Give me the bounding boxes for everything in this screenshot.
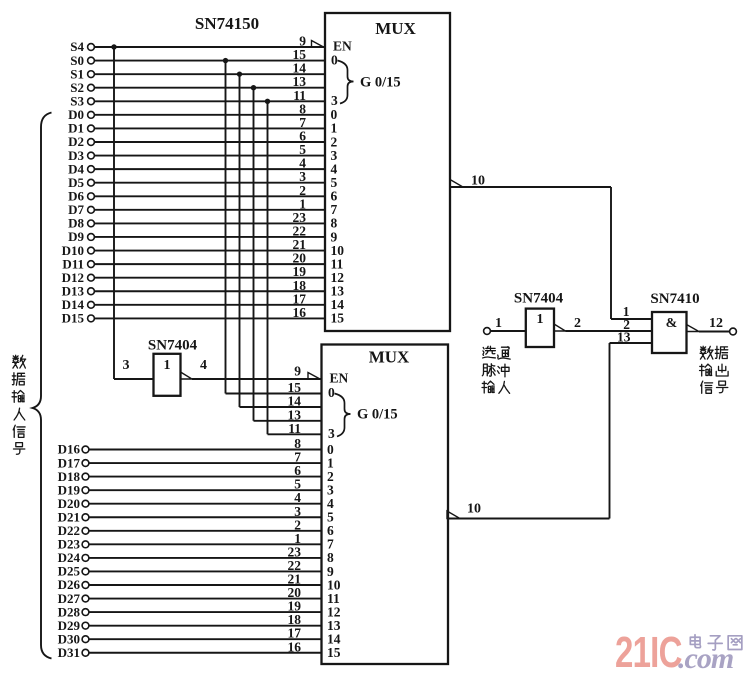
annotation text 选 (strobe pulse input) (483, 346, 496, 358)
svg-text:16: 16 (293, 305, 307, 320)
U2 select brace (335, 394, 351, 437)
svg-text:15: 15 (327, 645, 341, 660)
brace data inputs D0-D31 (33, 113, 52, 659)
annotation text 入 (data input signal) (14, 408, 25, 420)
annotation text 入 (strobe pulse input) (499, 381, 510, 393)
wire D16 to U2 pin 8 (89, 449, 322, 451)
inverter U3 SN7404 (154, 354, 181, 396)
wire D14 to U1 pin 17 (94, 304, 325, 306)
wire U4 output (699, 331, 730, 333)
multiplexer U1 SN74150 (top MUX) (325, 13, 450, 331)
wire to U4 pin 13 (610, 342, 653, 344)
wire strobe input to U5 (490, 330, 525, 332)
wire D20 to U2 pin 4 (89, 503, 322, 505)
U1 EN polarity wedge (312, 41, 324, 48)
wire S4 to U1 pin 9 (94, 46, 325, 48)
wire D17 to U2 pin 7 (89, 462, 322, 464)
wire D6 to U1 pin 2 (94, 195, 325, 197)
wire D31 to U2 pin 16 (89, 652, 322, 654)
wire S3 to U1 pin 11 (94, 100, 325, 102)
wire D11 to U1 pin 20 (94, 263, 325, 265)
wire S2 to U2 pin 13 (254, 420, 322, 422)
wire S1 vertical (239, 74, 241, 407)
annotation text 脉 (strobe pulse input) (482, 364, 495, 376)
svg-text:13: 13 (617, 330, 631, 345)
annotation text 输 (strobe pulse input) (482, 381, 494, 393)
wire D29 to U2 pin 18 (89, 625, 322, 627)
wire S3 to U2 pin 11 (268, 433, 322, 435)
U4 output wedge (pin 12) (687, 325, 700, 332)
wire D15 to U1 pin 16 (94, 317, 325, 319)
multiplexer U2 SN74150 (bottom MUX) (322, 345, 449, 665)
annotation text 输 (data input signal) (12, 390, 24, 402)
svg-text:D31: D31 (58, 645, 80, 660)
wire S2 vertical (253, 88, 255, 421)
svg-text:G 0/15: G 0/15 (360, 75, 401, 91)
svg-text:3: 3 (331, 93, 338, 108)
U2 EN polarity wedge (308, 373, 320, 380)
annotation text 号 (data output signal) (716, 381, 727, 393)
annotation text 信 (data input signal) (13, 425, 25, 437)
wire D4 to U1 pin 4 (94, 168, 325, 170)
U1 select brace (338, 61, 354, 104)
wire D5 to U1 pin 3 (94, 182, 325, 184)
annotation text 据 (data output signal) (715, 346, 727, 358)
U2 output wedge (pin 10) (447, 511, 460, 519)
wire D13 to U1 pin 18 (94, 290, 325, 292)
svg-text:21IC: 21IC (615, 629, 682, 678)
svg-text:3: 3 (328, 426, 335, 441)
wire D12 to U1 pin 19 (94, 277, 325, 279)
wire D27 to U2 pin 20 (89, 598, 322, 600)
svg-text:EN: EN (330, 371, 349, 386)
svg-text:11: 11 (288, 421, 301, 436)
wire S3 vertical (267, 101, 269, 434)
annotation text 数 (data input signal) (13, 355, 26, 368)
svg-text:0: 0 (331, 52, 338, 67)
annotation text 据 (data input signal) (12, 373, 24, 385)
wire D21 to U2 pin 3 (89, 516, 322, 518)
wire D9 to U1 pin 22 (94, 236, 325, 238)
annotation text 信 (data output signal) (701, 381, 713, 393)
svg-text:1: 1 (164, 358, 171, 373)
wire D22 to U2 pin 2 (89, 530, 322, 532)
svg-text:EN: EN (333, 39, 352, 54)
wire S0 vertical (225, 61, 227, 394)
wire D25 to U2 pin 22 (89, 570, 322, 572)
svg-text:15: 15 (331, 311, 345, 326)
svg-text:0: 0 (328, 385, 335, 400)
junction node S2 (251, 85, 256, 90)
wire S1 to U1 pin 14 (94, 73, 325, 75)
wire U1 output pin 10 (450, 186, 611, 188)
annotation text 冲 (strobe pulse input) (497, 364, 509, 377)
wire D7 to U1 pin 1 (94, 209, 325, 211)
svg-text:.com: .com (678, 642, 733, 675)
svg-text:14: 14 (288, 394, 302, 409)
svg-text:G 0/15: G 0/15 (357, 407, 398, 423)
wire S0 to U1 pin 15 (94, 60, 325, 62)
annotation text 出 (data output signal) (716, 364, 728, 376)
wire S1 to U2 pin 14 (240, 406, 322, 408)
annotation text 输 (data output signal) (700, 364, 712, 376)
svg-text:SN7404: SN7404 (514, 291, 564, 307)
U1 output wedge (pin 10) (450, 180, 463, 188)
wire S2 to U1 pin 13 (94, 87, 325, 89)
wire U3 output (pin 4) to U2 EN pin 9 (192, 378, 322, 380)
wire D0 to U1 pin 8 (94, 114, 325, 116)
svg-text:9: 9 (294, 364, 301, 379)
junction node S0 (223, 58, 228, 63)
inverter U5 SN7404 (526, 309, 554, 347)
svg-text:SN7404: SN7404 (148, 338, 198, 354)
svg-text:SN7410: SN7410 (650, 291, 699, 307)
junction node S4 (111, 44, 116, 49)
svg-text:D15: D15 (62, 311, 85, 326)
svg-text:3: 3 (123, 358, 130, 373)
wire D10 to U1 pin 21 (94, 250, 325, 252)
annotation text 号 (data input signal) (13, 443, 24, 455)
data output terminal (730, 328, 737, 335)
wire D2 to U1 pin 6 (94, 141, 325, 143)
wire D23 to U2 pin 1 (89, 543, 322, 545)
wire D28 to U2 pin 19 (89, 611, 322, 613)
U3 output bubble wedge (181, 372, 193, 379)
wire S4 vertical (113, 47, 115, 379)
svg-text:10: 10 (467, 502, 481, 517)
svg-text:1: 1 (495, 316, 502, 331)
wire D24 to U2 pin 23 (89, 557, 322, 559)
wire S4 to U3 input (pin 3) (114, 378, 154, 380)
svg-text:1: 1 (537, 312, 544, 327)
svg-text:4: 4 (200, 358, 207, 373)
svg-text:MUX: MUX (375, 19, 416, 38)
wire S0 to U2 pin 15 (226, 393, 322, 395)
U5 output bubble wedge (554, 324, 566, 331)
wire U5 output (pin 2) to U4 pin 2 (566, 330, 653, 332)
wire D3 to U1 pin 5 (94, 155, 325, 157)
NAND gate U4 SN7410 (652, 312, 687, 353)
junction node S3 (265, 99, 270, 104)
wire to U4 pin 1 (611, 318, 652, 320)
wire D1 to U1 pin 7 (94, 127, 325, 129)
svg-text:12: 12 (709, 316, 723, 331)
wire D30 to U2 pin 17 (89, 638, 322, 640)
svg-text:MUX: MUX (369, 348, 410, 367)
junction node S1 (237, 71, 242, 76)
wire D26 to U2 pin 21 (89, 584, 322, 586)
svg-text:2: 2 (574, 316, 581, 331)
svg-text:SN74150: SN74150 (195, 14, 259, 33)
strobe input terminal (484, 328, 491, 335)
annotation text 通 (strobe pulse input) (498, 347, 510, 359)
wire U2 output pin 10 (447, 518, 610, 520)
annotation text 数 (data output signal) (700, 346, 713, 359)
watermark 电子网 (690, 635, 700, 648)
wire D8 to U1 pin 23 (94, 222, 325, 224)
wire D19 to U2 pin 5 (89, 489, 322, 491)
svg-text:&: & (666, 316, 678, 331)
svg-text:16: 16 (288, 639, 302, 654)
wire D18 to U2 pin 6 (89, 476, 322, 478)
